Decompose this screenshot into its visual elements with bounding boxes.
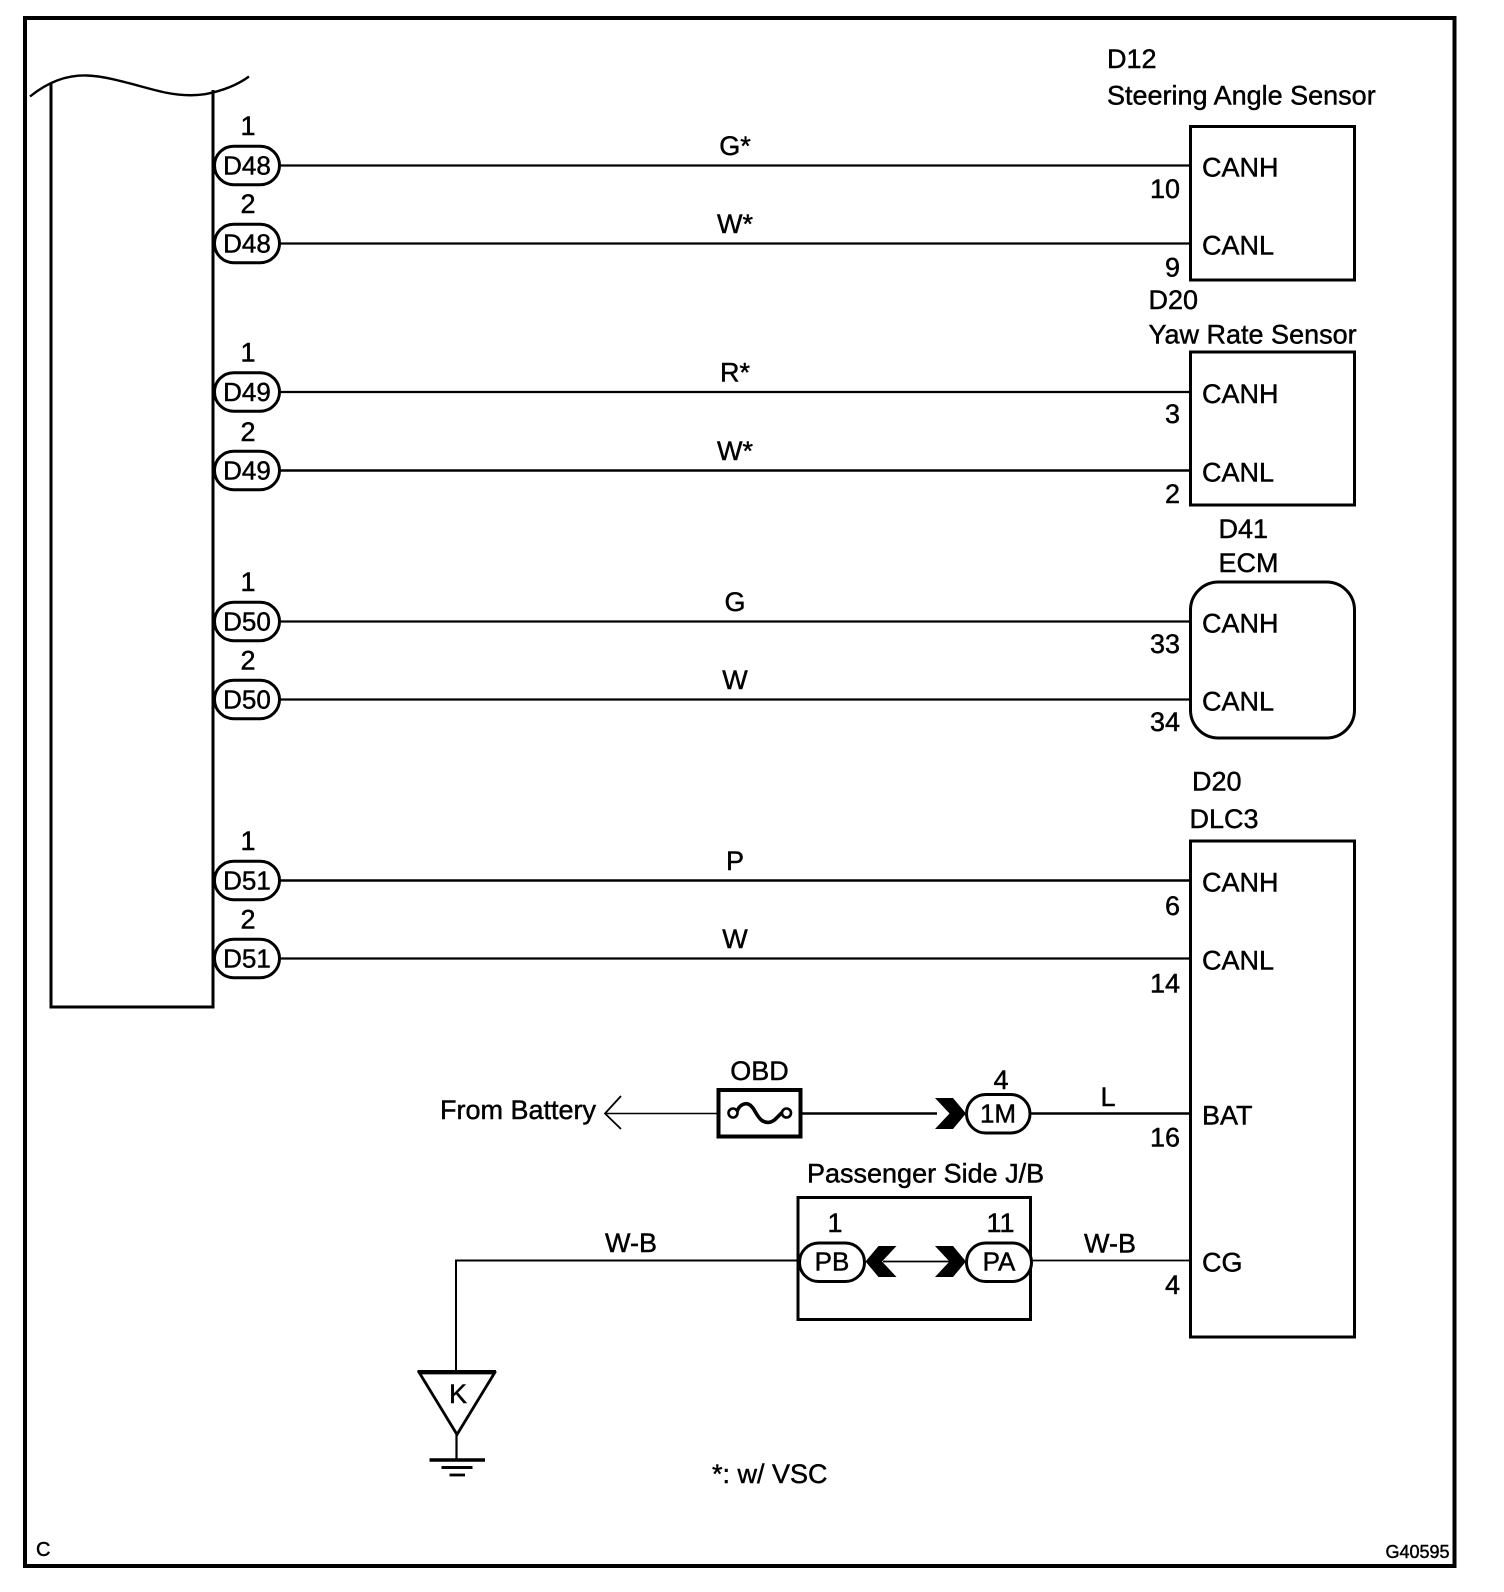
svg-text:C: C [36, 1539, 50, 1561]
svg-text:CANH: CANH [1202, 153, 1279, 183]
svg-text:PB: PB [815, 1247, 850, 1277]
svg-text:OBD: OBD [730, 1056, 789, 1086]
wire ground to PB [456, 1261, 800, 1372]
svg-text:W-B: W-B [605, 1228, 657, 1258]
svg-text:*: w/ VSC: *: w/ VSC [712, 1459, 828, 1489]
wire D51-1 to DLC3 CANH [280, 879, 1191, 882]
svg-text:CANH: CANH [1202, 609, 1279, 639]
splice arrowhead (right, at PA) [935, 1246, 966, 1277]
svg-text:R*: R* [720, 358, 750, 388]
svg-text:From Battery: From Battery [440, 1095, 597, 1125]
wire D49-1 to Yaw CANH [280, 391, 1191, 393]
wire D50-2 to ECM CANL [280, 698, 1191, 700]
fuse OBD box [719, 1090, 801, 1137]
svg-text:DLC3: DLC3 [1190, 804, 1259, 834]
svg-text:Steering Angle Sensor: Steering Angle Sensor [1107, 81, 1376, 111]
svg-text:D48: D48 [223, 151, 271, 181]
svg-text:1: 1 [240, 338, 255, 368]
svg-text:W: W [722, 924, 748, 954]
svg-text:P: P [726, 846, 744, 876]
wire D48-1 to D12 CANH [280, 164, 1191, 166]
svg-text:11: 11 [986, 1208, 1014, 1238]
svg-text:2: 2 [240, 417, 255, 447]
svg-text:CANL: CANL [1202, 687, 1274, 717]
svg-text:CANL: CANL [1202, 946, 1274, 976]
connector 1M [967, 1095, 1031, 1134]
svg-text:G*: G* [719, 131, 751, 161]
wire D50-1 to ECM CANH [280, 620, 1191, 622]
splice arrowhead (left, at PB) [866, 1246, 897, 1277]
open arrowhead (from battery) [605, 1096, 621, 1129]
svg-text:G: G [724, 587, 745, 617]
svg-text:1: 1 [240, 111, 255, 141]
splice arrowhead (right) [935, 1098, 966, 1129]
svg-text:D20: D20 [1149, 285, 1199, 315]
ground bar 1 [430, 1458, 486, 1462]
svg-text:2: 2 [1165, 479, 1180, 509]
svg-text:D48: D48 [223, 229, 271, 259]
svg-text:CANL: CANL [1202, 458, 1274, 488]
svg-text:Passenger Side J/B: Passenger Side J/B [807, 1159, 1044, 1189]
svg-text:33: 33 [1150, 629, 1180, 659]
wire battery to OBD fuse [606, 1113, 719, 1115]
ECM box D41 [1191, 582, 1355, 738]
svg-text:D49: D49 [223, 377, 271, 407]
svg-text:BAT: BAT [1202, 1101, 1253, 1131]
svg-text:9: 9 [1165, 253, 1180, 283]
svg-text:D51: D51 [223, 866, 271, 896]
svg-text:W-B: W-B [1084, 1229, 1136, 1259]
connector PA [967, 1243, 1032, 1282]
svg-text:CANH: CANH [1202, 379, 1279, 409]
wire 1M to DLC3 BAT [1030, 1112, 1191, 1115]
svg-text:1M: 1M [980, 1099, 1016, 1129]
svg-text:4: 4 [1165, 1270, 1180, 1300]
wavy break line [30, 75, 249, 96]
wire D51-2 to DLC3 CANL [280, 957, 1191, 959]
svg-text:CANL: CANL [1202, 231, 1274, 261]
connector D51 pin 1 [215, 861, 280, 900]
svg-text:L: L [1100, 1082, 1115, 1112]
svg-text:D20: D20 [1192, 767, 1242, 797]
fuse element left terminal [729, 1109, 738, 1118]
ground stem [455, 1434, 457, 1459]
fuse element right terminal [782, 1109, 791, 1118]
yaw rate sensor box D20 [1191, 352, 1355, 505]
svg-text:D50: D50 [223, 685, 271, 715]
connector D49 pin 1 [215, 373, 280, 412]
wire PA to DLC3 CG [1032, 1260, 1191, 1262]
fuse element squiggle [737, 1104, 782, 1123]
svg-text:K: K [449, 1379, 467, 1409]
connector D50 pin 2 [215, 680, 280, 719]
svg-text:W: W [722, 665, 748, 695]
svg-text:2: 2 [240, 646, 255, 676]
ground triangle K [418, 1370, 497, 1373]
connector D50 pin 1 [215, 602, 280, 641]
svg-text:D12: D12 [1107, 44, 1157, 74]
svg-text:4: 4 [993, 1065, 1008, 1095]
svg-text:2: 2 [240, 905, 255, 935]
svg-text:6: 6 [1165, 891, 1180, 921]
svg-text:PA: PA [983, 1247, 1016, 1277]
wire D49-2 to Yaw CANL [280, 469, 1191, 472]
svg-text:1: 1 [827, 1208, 842, 1238]
connector D48 pin 2 [215, 224, 280, 263]
svg-text:D49: D49 [223, 456, 271, 486]
svg-text:D41: D41 [1219, 514, 1269, 544]
svg-text:CANH: CANH [1202, 868, 1279, 898]
connector D51 pin 2 [215, 939, 280, 978]
bus junction block (left, cut off) [51, 83, 213, 1007]
connector PB [800, 1243, 865, 1282]
svg-text:1: 1 [240, 826, 255, 856]
svg-text:14: 14 [1150, 969, 1180, 999]
svg-text:10: 10 [1150, 174, 1180, 204]
DLC3 box [1191, 841, 1355, 1337]
connector D48 pin 1 [215, 146, 280, 185]
svg-text:16: 16 [1150, 1123, 1180, 1153]
ground bar 2 [442, 1466, 473, 1469]
svg-text:ECM: ECM [1219, 548, 1279, 578]
passenger side J/B box [798, 1198, 1031, 1320]
svg-text:1: 1 [240, 567, 255, 597]
wire between J/B splices [883, 1261, 951, 1263]
wire OBD to splice arrow [801, 1112, 938, 1115]
ground bar 3 [450, 1474, 466, 1477]
svg-text:2: 2 [240, 189, 255, 219]
steering angle sensor box D12 [1191, 127, 1355, 281]
svg-text:W*: W* [717, 209, 753, 239]
svg-text:W*: W* [717, 436, 753, 466]
svg-text:34: 34 [1150, 707, 1180, 737]
svg-text:CG: CG [1202, 1248, 1243, 1278]
connector D49 pin 2 [215, 451, 280, 490]
svg-text:D50: D50 [223, 607, 271, 637]
svg-text:3: 3 [1165, 399, 1180, 429]
svg-text:Yaw Rate Sensor: Yaw Rate Sensor [1149, 320, 1357, 350]
wire D48-2 to D12 CANL [280, 242, 1191, 244]
svg-text:G40595: G40595 [1385, 1542, 1449, 1562]
svg-text:D51: D51 [223, 944, 271, 974]
